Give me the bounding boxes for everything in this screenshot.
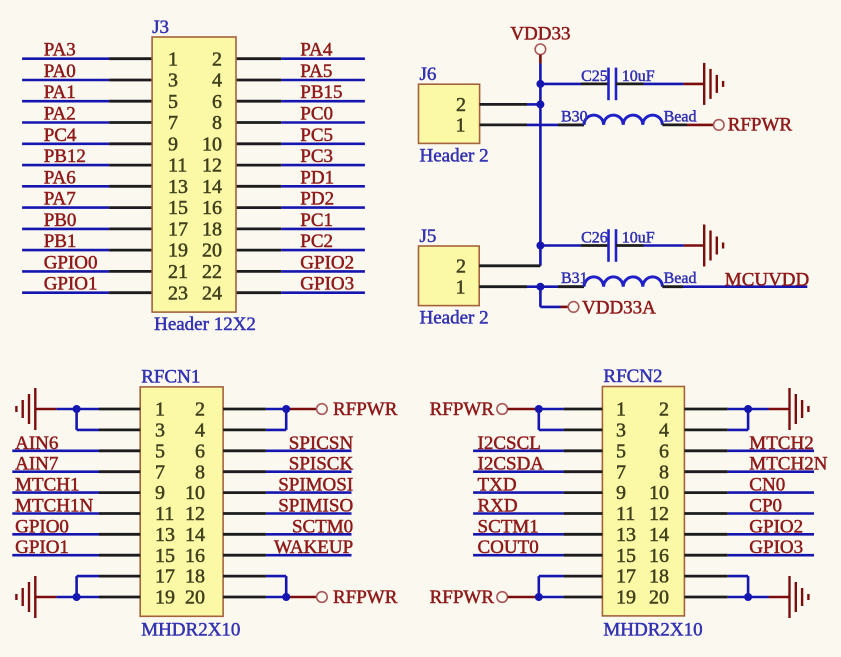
svg-text:MTCH2N: MTCH2N	[749, 454, 827, 475]
svg-text:B30: B30	[561, 108, 588, 125]
svg-text:20: 20	[202, 240, 222, 262]
svg-text:AIN7: AIN7	[15, 454, 58, 475]
svg-text:13: 13	[168, 176, 188, 198]
svg-text:3: 3	[168, 70, 178, 92]
svg-text:COUT0: COUT0	[478, 537, 539, 558]
svg-text:2: 2	[195, 399, 205, 421]
svg-text:PB1: PB1	[44, 231, 77, 252]
svg-text:Bead: Bead	[664, 108, 697, 125]
svg-text:13: 13	[616, 524, 636, 546]
svg-text:4: 4	[212, 70, 222, 92]
svg-text:GPIO3: GPIO3	[300, 274, 354, 295]
svg-text:PC5: PC5	[300, 125, 333, 146]
svg-text:PD2: PD2	[300, 189, 334, 210]
svg-text:RFPWR: RFPWR	[430, 587, 495, 608]
svg-text:21: 21	[168, 261, 188, 283]
svg-text:PB12: PB12	[44, 146, 86, 167]
svg-text:SCTM1: SCTM1	[478, 516, 539, 537]
svg-text:8: 8	[212, 112, 222, 134]
svg-text:24: 24	[202, 282, 222, 304]
svg-text:PD1: PD1	[300, 167, 334, 188]
svg-text:14: 14	[649, 524, 669, 546]
svg-text:GPIO1: GPIO1	[15, 537, 69, 558]
svg-text:14: 14	[202, 176, 222, 198]
svg-text:PA4: PA4	[300, 40, 333, 61]
svg-text:CP0: CP0	[749, 496, 782, 517]
svg-text:SPIMOSI: SPIMOSI	[278, 475, 353, 496]
svg-text:PA6: PA6	[44, 167, 76, 188]
svg-text:14: 14	[185, 524, 205, 546]
svg-text:15: 15	[155, 545, 175, 567]
svg-text:4: 4	[195, 420, 205, 442]
svg-text:8: 8	[195, 461, 205, 483]
svg-text:22: 22	[202, 261, 222, 283]
svg-text:6: 6	[659, 440, 669, 462]
svg-text:15: 15	[168, 197, 188, 219]
svg-text:Bead: Bead	[664, 270, 697, 287]
svg-text:19: 19	[155, 587, 175, 609]
svg-text:MCUVDD: MCUVDD	[725, 270, 809, 291]
svg-text:7: 7	[155, 461, 165, 483]
svg-text:13: 13	[155, 524, 175, 546]
svg-text:J6: J6	[420, 64, 437, 85]
svg-text:PB15: PB15	[300, 82, 342, 103]
svg-text:RFPWR: RFPWR	[333, 587, 398, 608]
svg-text:I2CSDA: I2CSDA	[478, 454, 545, 475]
svg-text:16: 16	[202, 197, 222, 219]
svg-text:10: 10	[185, 482, 205, 504]
svg-text:6: 6	[195, 440, 205, 462]
svg-text:16: 16	[185, 545, 205, 567]
svg-text:GPIO2: GPIO2	[749, 516, 803, 537]
svg-text:PC3: PC3	[300, 146, 333, 167]
svg-text:17: 17	[168, 219, 188, 241]
svg-text:11: 11	[168, 155, 187, 177]
svg-text:AIN6: AIN6	[15, 433, 58, 454]
svg-text:5: 5	[155, 440, 165, 462]
svg-text:1: 1	[616, 399, 626, 421]
svg-text:PB0: PB0	[44, 210, 77, 231]
svg-text:PC4: PC4	[44, 125, 77, 146]
svg-text:Header 2: Header 2	[420, 145, 489, 166]
svg-text:GPIO1: GPIO1	[44, 274, 98, 295]
svg-text:PA1: PA1	[44, 82, 76, 103]
svg-text:8: 8	[659, 461, 669, 483]
svg-text:9: 9	[616, 482, 626, 504]
svg-text:Header 2: Header 2	[420, 308, 489, 329]
svg-text:10uF: 10uF	[622, 230, 655, 247]
svg-text:RFPWR: RFPWR	[333, 399, 398, 420]
svg-text:SPISCK: SPISCK	[289, 454, 354, 475]
svg-text:GPIO0: GPIO0	[44, 252, 98, 273]
svg-text:1: 1	[168, 48, 178, 70]
svg-text:10: 10	[649, 482, 669, 504]
svg-text:Header 12X2: Header 12X2	[154, 314, 256, 335]
svg-text:TXD: TXD	[478, 475, 517, 496]
svg-text:16: 16	[649, 545, 669, 567]
svg-text:20: 20	[649, 587, 669, 609]
svg-text:GPIO3: GPIO3	[749, 537, 803, 558]
svg-text:PA5: PA5	[300, 61, 332, 82]
svg-text:VDD33A: VDD33A	[582, 297, 656, 318]
svg-text:PC0: PC0	[300, 104, 333, 125]
svg-text:J3: J3	[152, 17, 169, 38]
svg-text:SCTM0: SCTM0	[292, 516, 353, 537]
svg-text:12: 12	[649, 503, 669, 525]
svg-text:I2CSCL: I2CSCL	[478, 433, 541, 454]
svg-text:RFPWR: RFPWR	[728, 115, 793, 136]
svg-text:23: 23	[168, 282, 188, 304]
svg-text:9: 9	[155, 482, 165, 504]
svg-text:SPIMISO: SPIMISO	[278, 496, 353, 517]
svg-text:18: 18	[202, 219, 222, 241]
svg-text:PA2: PA2	[44, 104, 76, 125]
svg-text:4: 4	[659, 420, 669, 442]
svg-text:10uF: 10uF	[622, 68, 655, 85]
svg-text:VDD33: VDD33	[510, 24, 570, 45]
svg-text:15: 15	[616, 545, 636, 567]
svg-text:17: 17	[155, 566, 175, 588]
svg-text:9: 9	[168, 133, 178, 155]
svg-text:19: 19	[616, 587, 636, 609]
svg-text:MHDR2X10: MHDR2X10	[141, 620, 240, 641]
svg-text:RFPWR: RFPWR	[430, 399, 495, 420]
svg-text:PA7: PA7	[44, 189, 76, 210]
svg-text:1: 1	[155, 399, 165, 421]
svg-text:GPIO0: GPIO0	[15, 516, 69, 537]
svg-text:MTCH1: MTCH1	[15, 475, 79, 496]
svg-text:12: 12	[185, 503, 205, 525]
svg-text:GPIO2: GPIO2	[300, 252, 354, 273]
svg-text:10: 10	[202, 133, 222, 155]
svg-text:SPICSN: SPICSN	[289, 433, 354, 454]
svg-text:11: 11	[155, 503, 174, 525]
svg-text:1: 1	[456, 276, 466, 298]
svg-text:2: 2	[456, 255, 466, 277]
svg-text:PA3: PA3	[44, 40, 76, 61]
svg-text:C25: C25	[581, 68, 608, 85]
svg-text:MHDR2X10: MHDR2X10	[603, 619, 702, 640]
svg-text:RFCN2: RFCN2	[603, 366, 662, 387]
svg-text:WAKEUP: WAKEUP	[274, 537, 353, 558]
svg-text:C26: C26	[581, 230, 608, 247]
svg-text:2: 2	[212, 48, 222, 70]
svg-text:2: 2	[659, 399, 669, 421]
svg-text:12: 12	[202, 155, 222, 177]
svg-text:3: 3	[616, 420, 626, 442]
svg-text:6: 6	[212, 91, 222, 113]
svg-text:17: 17	[616, 566, 636, 588]
svg-text:B31: B31	[561, 270, 588, 287]
svg-text:J5: J5	[420, 226, 437, 247]
svg-text:PA0: PA0	[44, 61, 76, 82]
svg-text:7: 7	[616, 461, 626, 483]
svg-text:MTCH2: MTCH2	[749, 433, 813, 454]
svg-text:19: 19	[168, 240, 188, 262]
svg-text:2: 2	[456, 94, 466, 116]
svg-text:PC2: PC2	[300, 231, 333, 252]
svg-text:CN0: CN0	[749, 475, 785, 496]
svg-text:1: 1	[456, 115, 466, 137]
svg-text:RXD: RXD	[478, 496, 518, 517]
svg-text:20: 20	[185, 587, 205, 609]
svg-text:MTCH1N: MTCH1N	[15, 496, 93, 517]
svg-text:11: 11	[616, 503, 635, 525]
svg-text:18: 18	[185, 566, 205, 588]
svg-text:PC1: PC1	[300, 210, 333, 231]
svg-text:5: 5	[168, 91, 178, 113]
svg-text:5: 5	[616, 440, 626, 462]
svg-text:18: 18	[649, 566, 669, 588]
svg-text:7: 7	[168, 112, 178, 134]
svg-text:3: 3	[155, 420, 165, 442]
svg-text:RFCN1: RFCN1	[141, 367, 200, 388]
